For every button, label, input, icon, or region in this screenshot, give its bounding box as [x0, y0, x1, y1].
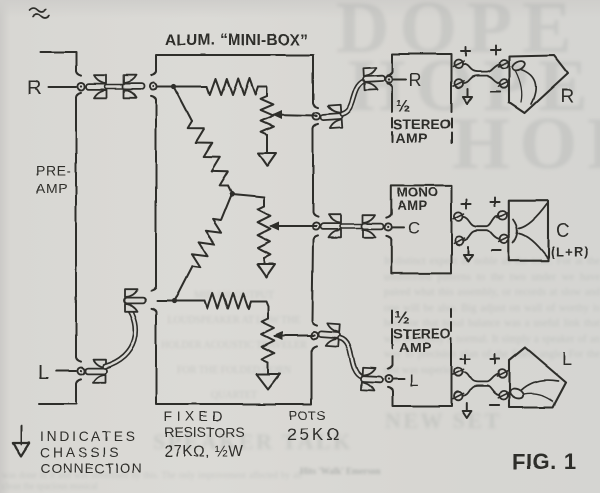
jack stereo amp L input	[385, 375, 392, 382]
ghost headline fragment left	[153, 429, 353, 455]
ghost bleed-through headline row2	[348, 44, 598, 129]
terminal amp L - output	[454, 392, 463, 401]
plug P2b (cable W2 upper plug)	[124, 289, 146, 312]
chassis arrow (mono amp)	[467, 247, 469, 255]
wire R4 to pot P3	[251, 301, 268, 318]
svg-text:PRE-: PRE-	[36, 162, 72, 178]
svg-text:CHASSIS: CHASSIS	[40, 445, 122, 460]
plug P5a (cable W5 left plug)	[318, 323, 341, 347]
plug P3b (cable W3 right plug)	[362, 67, 385, 91]
label + (mono amp)	[462, 203, 471, 205]
wire R2 to center node	[228, 186, 232, 194]
resistor R3 (fixed 27K diagonal)	[191, 220, 221, 267]
svg-text:POTS: POTS	[289, 408, 325, 423]
label + (speaker L)	[490, 358, 499, 360]
ghost headline fragment right	[385, 408, 502, 434]
wire R input to R1	[174, 86, 207, 88]
wire L junction to R3	[174, 266, 192, 301]
wire R lead	[48, 86, 76, 88]
jack stereo amp R input	[385, 76, 392, 83]
svg-text:R: R	[409, 70, 422, 90]
svg-text:½: ½	[396, 97, 410, 116]
pot P2 wiper arrow	[271, 225, 316, 227]
wire R junction to R2	[174, 87, 192, 122]
plug P5b (cable W5 right plug)	[360, 368, 383, 392]
plug P1b (cable W1 right plug)	[123, 75, 145, 98]
ghost bleed-through headline DOPE	[336, 0, 582, 71]
ghost body text bottom left	[2, 470, 302, 492]
jack preamp L	[77, 367, 84, 374]
wire amp L input lead	[393, 378, 404, 380]
label + (amp L)	[461, 358, 470, 360]
svg-text:CONNECTION: CONNECTION	[40, 461, 143, 476]
wire R1 to pot P1	[258, 87, 267, 97]
svg-text:C: C	[408, 218, 420, 237]
plug P3a (cable W3 left plug)	[320, 105, 343, 129]
pot P3 wiper arrow	[275, 335, 314, 337]
handwritten mark top-left	[30, 8, 49, 18]
pot P2 element	[258, 206, 271, 258]
ghost body text right column	[384, 254, 600, 378]
svg-text:25KΩ: 25KΩ	[287, 425, 342, 444]
wires mono to speaker C	[463, 215, 499, 226]
pot P1 element	[261, 96, 274, 135]
pot P1 wiper arrow	[274, 115, 316, 116]
terminal speaker L -	[499, 391, 508, 400]
label - (speaker C)	[491, 249, 500, 251]
terminal speaker C +	[498, 211, 507, 220]
plug P4a (cable W4 left plug)	[321, 215, 343, 238]
chassis arrow (amp L)	[466, 403, 468, 411]
jack mini-box R input	[149, 83, 156, 90]
svg-text:AMP: AMP	[397, 198, 427, 213]
svg-text:FIXED: FIXED	[164, 408, 226, 424]
resistor R4 (fixed 27K bottom)	[205, 293, 251, 308]
label - (speaker L)	[490, 404, 499, 406]
wire R3 to center node	[221, 194, 232, 221]
wire center node to pot P2	[232, 194, 264, 206]
svg-text:FIG. 1: FIG. 1	[512, 449, 576, 474]
label - (speaker R)	[491, 90, 500, 92]
half stereo amp box (bottom)	[392, 311, 394, 323]
node center mix point	[229, 191, 234, 196]
speaker R horn	[509, 55, 568, 113]
svg-text:L: L	[409, 371, 418, 390]
jack mono amp input	[385, 223, 392, 230]
pot P3 element	[262, 318, 275, 362]
svg-text:ALUM. “MINI-BOX”: ALUM. “MINI-BOX”	[165, 32, 309, 49]
legend chassis symbol	[20, 426, 22, 445]
plug P1a (cable W1 left plug)	[86, 75, 108, 98]
wire amp R input lead	[393, 79, 406, 81]
terminal speaker C -	[500, 235, 509, 244]
ghost body text mid column	[158, 283, 310, 408]
ground chassis under P1	[258, 153, 276, 166]
mini-box enclosure outline	[156, 55, 313, 103]
svg-text:R: R	[560, 86, 574, 107]
label + (amp R)	[461, 51, 470, 53]
svg-text:RESISTORS: RESISTORS	[164, 424, 245, 440]
cable W3 shield	[342, 81, 364, 114]
wire L input to R4	[174, 300, 205, 302]
terminal amp R + output	[455, 60, 464, 69]
terminal mono - output	[455, 236, 464, 245]
wire L lead	[56, 370, 76, 372]
terminal amp L + output	[454, 368, 463, 377]
cable W1 shield	[107, 84, 123, 90]
svg-text:C: C	[556, 221, 570, 242]
node R input junction	[171, 84, 176, 89]
jack preamp R	[77, 83, 84, 90]
svg-text:AMP: AMP	[36, 180, 68, 196]
svg-text:27KΩ, ½W: 27KΩ, ½W	[164, 443, 243, 460]
speaker L horn	[509, 348, 566, 408]
svg-text:INDICATES: INDICATES	[40, 429, 138, 444]
jack mini-box R output	[313, 112, 320, 119]
terminal speaker R -	[500, 79, 509, 88]
wire P3 to ground	[267, 362, 269, 374]
ground chassis under P2	[257, 264, 275, 277]
plug P4b (cable W4 right plug)	[362, 215, 384, 238]
svg-text:(L+R): (L+R)	[550, 244, 590, 259]
svg-text:L: L	[562, 349, 573, 370]
ground chassis under P3	[257, 374, 280, 389]
terminal speaker L +	[498, 370, 507, 379]
jack mini-box L output	[311, 332, 318, 339]
svg-text:R: R	[27, 77, 41, 99]
terminal mono + output	[454, 212, 463, 221]
cable W2 shield	[105, 306, 136, 367]
cable W4 shield	[342, 223, 362, 229]
wires amp R to speaker R	[463, 64, 500, 72]
plug P2a (cable W2 lower plug)	[85, 360, 107, 383]
wire P2 to ground	[263, 258, 265, 264]
terminal amp R - output	[455, 79, 464, 88]
svg-text:AMP: AMP	[395, 130, 427, 146]
half stereo amp box (top)	[392, 54, 452, 112]
label + (speaker R)	[491, 49, 500, 51]
terminal speaker R +	[500, 60, 509, 69]
cable W5 shield	[340, 338, 362, 377]
preamp box (open bracket)	[41, 52, 76, 71]
resistor R2 (fixed 27K diagonal)	[188, 121, 229, 186]
svg-text:AMP: AMP	[399, 339, 431, 355]
ghost bleed-through headline row3	[452, 102, 600, 187]
chassis arrow (amp R)	[467, 89, 469, 97]
speaker C cabinet	[509, 201, 548, 261]
mono amp box	[391, 185, 451, 273]
svg-text:L: L	[38, 362, 49, 384]
jack mini-box C output	[312, 222, 319, 229]
wire P1 to ground	[266, 135, 268, 153]
node L input junction	[171, 298, 176, 303]
wires amp L to speaker L	[463, 372, 499, 382]
label + (speaker C)	[490, 201, 499, 203]
wire mono C input lead	[393, 226, 404, 228]
ghost caption bottom	[300, 464, 450, 480]
resistor R1 (fixed 27K top)	[207, 79, 258, 95]
